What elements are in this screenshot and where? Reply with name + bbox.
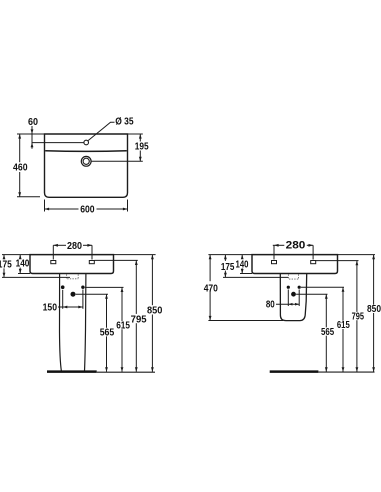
ref line 795 from tap mark (right view) <box>316 260 359 262</box>
dim 150 ext from left dot <box>62 290 64 309</box>
tap hole (plan) <box>84 140 89 145</box>
dim 150 line <box>58 306 83 308</box>
basin underside line (175 ref) <box>2 276 70 278</box>
dim 280 arrows <box>53 244 58 247</box>
dim 150 ext from right dot <box>82 290 84 309</box>
svg-text:60: 60 <box>28 117 38 128</box>
dim 280 ext left <box>52 245 54 259</box>
drain outer circle <box>81 156 91 166</box>
dim 460 arrow top <box>18 134 21 139</box>
floor mark (right view) <box>270 370 319 373</box>
svg-text:195: 195 <box>135 141 149 152</box>
svg-text:280: 280 <box>286 240 306 252</box>
dim 280 line (right view) <box>273 244 285 246</box>
svg-text:175: 175 <box>221 262 235 273</box>
tap hole mark left (right view) <box>272 261 277 264</box>
dim 795 line (right view) <box>356 261 358 312</box>
fixing hole left dot (right view) <box>287 286 290 289</box>
semi-pedestal bottom ext (470) <box>208 320 283 322</box>
svg-text:280: 280 <box>67 241 82 252</box>
dim 195 arrow top <box>139 134 142 139</box>
dim 600 ext right <box>127 200 129 212</box>
drain inner circle <box>83 158 89 164</box>
dim 280 ext right <box>91 245 93 259</box>
top edge extension right <box>128 133 143 135</box>
top edge ext right (850 right view) <box>338 254 376 256</box>
svg-text:140: 140 <box>16 259 30 270</box>
dim 600 line <box>45 208 79 210</box>
svg-text:460: 460 <box>13 163 28 174</box>
dim 60 arrow bottom <box>31 143 34 148</box>
dim 80 ext from left dot (right view) <box>287 290 289 307</box>
pedestal right edge <box>85 274 86 371</box>
svg-text:Ø 35: Ø 35 <box>115 117 134 128</box>
basin underside line (175 ref right view) <box>223 276 288 278</box>
top edge ext right (850) <box>114 254 156 256</box>
dim 600 arrow left <box>45 208 50 211</box>
bottom ext for 140 (right view) <box>240 273 252 275</box>
dim 280 line (left view) <box>53 244 66 246</box>
dim 615 line <box>121 287 123 321</box>
ref line 565 from waste dot (right view) <box>296 293 327 295</box>
basin outline (front, right view) <box>252 255 338 274</box>
svg-text:470: 470 <box>204 283 219 294</box>
dim 140 line <box>19 255 21 259</box>
ref line 615 from right dot <box>85 286 124 288</box>
tap hole mark right <box>89 261 94 264</box>
dim 80 ext from right dot (right view) <box>298 290 300 307</box>
dim 565 line (right view) <box>325 294 327 327</box>
pedestal base plate <box>47 370 97 373</box>
ref line 795 from tap mark <box>94 259 137 261</box>
dim 565 line <box>106 294 108 328</box>
dim 60 line <box>31 126 33 149</box>
dim 195 line <box>139 134 141 142</box>
svg-text:565: 565 <box>100 328 115 339</box>
dim 470 line <box>209 255 211 282</box>
top edge ext left (470/175/140) <box>208 254 252 256</box>
drain ref line (195) <box>91 160 143 162</box>
tap centre line (60 ref) <box>32 142 84 144</box>
svg-text:140: 140 <box>236 260 249 271</box>
basin outline (front, left view) <box>30 255 114 274</box>
waste outlet dot (right view) <box>291 292 296 297</box>
dim 460 arrow bottom <box>18 192 21 197</box>
tap hole mark left <box>51 261 56 264</box>
top edge ext left (175/140) <box>2 254 30 256</box>
svg-text:795: 795 <box>131 314 147 325</box>
svg-text:615: 615 <box>337 320 350 331</box>
top edge extension left <box>17 133 45 135</box>
dashed trap outline (right view) <box>288 274 298 279</box>
basin back ledge edge <box>45 150 127 153</box>
fixing hole right dot (right view) <box>298 286 301 289</box>
dim 850 line <box>151 255 153 306</box>
bottom edge extension left (460) <box>17 196 40 198</box>
dim 175 line (right view) <box>224 255 226 261</box>
fixing hole left dot <box>61 285 65 289</box>
dim 280 ext right (right view) <box>312 245 314 259</box>
dim 280 ext left (right view) <box>273 245 275 259</box>
dim 795 line <box>135 260 137 314</box>
fixing hole right dot <box>81 286 84 289</box>
dim 600 arrow right <box>123 208 128 211</box>
ref line 615 from right dot (right view) <box>301 286 344 288</box>
dim 850 line (right view) <box>373 255 375 305</box>
floor line left view <box>97 371 155 373</box>
pedestal left edge <box>60 274 62 371</box>
bottom ext for 140 <box>18 273 30 275</box>
dim 175 line <box>3 255 5 260</box>
leader line dia35 <box>88 122 115 141</box>
dim 615 line (right view) <box>342 287 344 321</box>
dashed trap outline <box>67 274 79 279</box>
svg-text:80: 80 <box>266 299 275 310</box>
dim 60 arrow top <box>31 129 34 134</box>
dim 195 arrow bottom <box>139 157 142 162</box>
svg-text:565: 565 <box>321 327 335 338</box>
floor line right view <box>318 371 374 373</box>
dim 140 line (right view) <box>241 255 243 259</box>
semi-pedestal outline <box>280 274 306 321</box>
dim 460 line <box>19 134 21 162</box>
basin outline (plan) <box>45 134 128 197</box>
svg-text:850: 850 <box>147 306 163 317</box>
svg-text:795: 795 <box>352 311 365 322</box>
svg-text:150: 150 <box>43 303 58 314</box>
svg-text:850: 850 <box>367 304 381 315</box>
svg-text:600: 600 <box>80 204 95 215</box>
tap hole mark right (right view) <box>311 261 316 264</box>
svg-text:615: 615 <box>116 321 130 332</box>
svg-text:175: 175 <box>0 260 12 271</box>
ref line 565 from waste dot <box>76 293 108 295</box>
dim 80 line <box>276 303 299 305</box>
waste outlet dot <box>71 292 76 297</box>
dim 600 ext left <box>44 200 46 212</box>
